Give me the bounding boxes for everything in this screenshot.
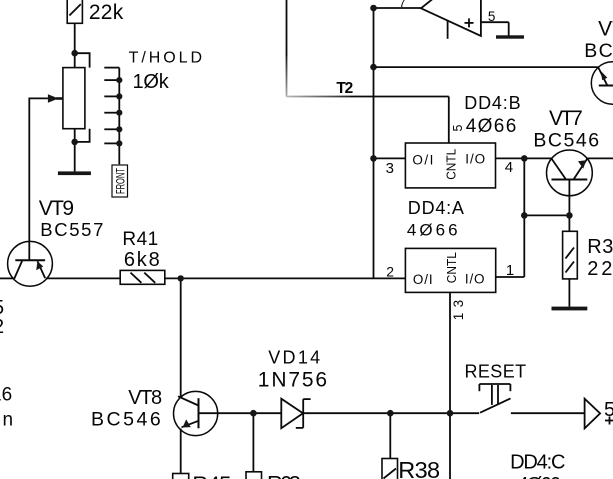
- svg-text:4Ø66: 4Ø66: [518, 474, 561, 479]
- svg-text:1Øk: 1Øk: [133, 71, 170, 93]
- svg-text:BC557: BC557: [40, 219, 103, 240]
- svg-text:RESET: RESET: [465, 362, 527, 382]
- svg-text:R39: R39: [587, 236, 613, 258]
- svg-text:6k8: 6k8: [124, 249, 160, 271]
- svg-text:BC546: BC546: [584, 40, 613, 62]
- svg-text:DD4:B: DD4:B: [464, 93, 521, 113]
- svg-text:1: 1: [506, 262, 514, 279]
- svg-text:4Ø66: 4Ø66: [466, 116, 517, 137]
- svg-text:R41: R41: [122, 229, 158, 250]
- svg-text:2: 2: [386, 264, 394, 280]
- svg-text:n: n: [3, 410, 14, 431]
- svg-text:R38: R38: [398, 457, 440, 479]
- svg-text:R63: R63: [267, 472, 301, 479]
- svg-text:O/I: O/I: [412, 152, 433, 167]
- svg-text:DD4:C: DD4:C: [510, 451, 565, 473]
- svg-text:22k: 22k: [89, 1, 124, 24]
- svg-text:I/O: I/O: [465, 272, 485, 287]
- svg-text:5: 5: [604, 399, 613, 421]
- svg-text:DD4:A: DD4:A: [408, 198, 464, 218]
- svg-text:1N756: 1N756: [258, 369, 327, 392]
- svg-text:R45: R45: [192, 472, 231, 479]
- svg-text:I/O: I/O: [465, 152, 485, 167]
- svg-text:T2: T2: [336, 80, 353, 97]
- svg-text:16: 16: [0, 385, 12, 406]
- svg-text:CNTL: CNTL: [443, 149, 458, 180]
- svg-text:4: 4: [505, 159, 513, 176]
- svg-text:VT: VT: [598, 18, 613, 41]
- svg-text:4Ø66: 4Ø66: [407, 221, 458, 240]
- svg-text:3: 3: [386, 160, 394, 177]
- svg-text:BC546: BC546: [91, 408, 161, 430]
- svg-text:FRONT: FRONT: [113, 168, 127, 194]
- svg-text:CNTL: CNTL: [444, 252, 459, 283]
- svg-text:VT9: VT9: [39, 197, 74, 220]
- svg-text:7: 7: [399, 0, 406, 10]
- svg-text:5: 5: [451, 125, 465, 132]
- svg-text:BC546: BC546: [533, 130, 599, 152]
- svg-text:2: 2: [0, 316, 4, 338]
- svg-text:O/I: O/I: [413, 272, 433, 287]
- svg-text:VD14: VD14: [268, 348, 320, 368]
- svg-text:5: 5: [488, 9, 496, 24]
- svg-text:VT7: VT7: [549, 107, 583, 130]
- svg-text:VT8: VT8: [128, 387, 162, 409]
